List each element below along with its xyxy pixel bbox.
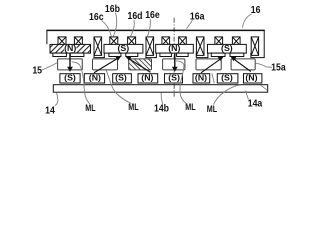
flux line ML b6 to bar4 [201,56,224,73]
spacer under bar3 left [160,53,172,56]
yoke tooth cap U1 [94,53,104,58]
flux line ML b2 to bar2 [94,56,121,73]
svg-text:14b: 14b [154,103,169,114]
center line (dash-dot axis) [173,18,175,97]
svg-text:ML: ML [85,103,95,113]
svg-text:(N): (N) [141,73,153,83]
pole piece box m4 [163,59,185,70]
magnet bar3 (N) [156,44,194,53]
svg-text:ML: ML [207,104,217,114]
spacer under bar1 left [53,53,67,56]
svg-text:(S): (S) [117,43,129,53]
lower magnet b4 (N) [138,74,158,83]
spacer under bar3 right [177,53,189,56]
spacer under bar4 right [230,53,244,56]
lower magnet b3 (S) [113,74,132,83]
leader 16a [187,20,193,29]
coil short box 3 [110,37,118,46]
leader 16c [102,20,112,36]
svg-text:16e: 16e [145,10,160,21]
svg-text:16d: 16d [127,10,142,21]
svg-text:ML: ML [128,102,138,112]
leader ML4 lower [214,85,241,105]
svg-text:14: 14 [45,105,55,116]
leader 16d [131,20,135,37]
yoke right wall [263,30,265,58]
bar1 pole text (N) [64,43,77,53]
leader 15a [256,63,273,67]
svg-text:16a: 16a [190,11,205,22]
leader ML2 [106,69,132,104]
pole piece box m2 [93,59,118,70]
magnet bar1 (N) hatched [50,44,91,53]
svg-text:(S): (S) [221,43,233,53]
svg-text:ML: ML [185,102,195,112]
leader 16b [113,13,117,37]
spacer under bar2 left [109,53,121,56]
yoke 16 top plate [46,29,264,31]
coil tall box t3 [196,37,204,56]
pole piece box m3 hatched [129,59,152,70]
center line over base plate [173,85,175,92]
leader ML3 [176,61,187,104]
leader 14b [161,93,163,105]
spacer under bar4 left [211,53,225,56]
flux arrow down under bar1 [67,54,73,72]
pole piece box m5 [196,59,221,70]
flux arrow down under bar3 [172,54,178,72]
flux line ML b4 to bar2 [126,56,151,72]
bar3 pole text (N) [168,43,181,53]
svg-text:(N): (N) [168,43,180,53]
coil short box 5 [162,37,170,46]
svg-text:16: 16 [251,5,261,16]
yoke left wall [46,30,48,44]
svg-text:14a: 14a [248,98,263,109]
pole piece 15 box m1 [58,59,83,70]
yoke tooth cap U4 [251,53,265,58]
coil 16c short box 1 [58,37,66,46]
leader 16e [147,19,150,37]
svg-text:(S): (S) [115,73,127,83]
coil short box 7 [215,37,223,46]
svg-text:15a: 15a [271,62,286,73]
coil tall box t4 [251,37,258,56]
svg-text:(N): (N) [245,73,257,83]
svg-text:16b: 16b [105,4,120,15]
lower magnet b2 (N) [84,74,104,83]
spacer under bar2 right [126,53,138,56]
svg-text:(S): (S) [168,73,180,83]
svg-text:(S): (S) [64,73,76,83]
svg-text:16c: 16c [89,11,104,22]
magnet bar4 (S) [208,44,247,53]
magnet bar2 (S) [104,44,143,53]
coil short box 4 [128,37,136,46]
coil short box 2 [74,37,82,46]
leader 14a [246,91,249,100]
pole piece box m6 (15a) [231,59,255,70]
svg-text:15: 15 [32,65,42,76]
lower magnet b6 (N) [193,74,210,83]
svg-text:(N): (N) [64,43,76,53]
leader short at bar right end [261,85,268,90]
svg-text:(N): (N) [89,73,101,83]
coil tall box t1 [94,37,102,56]
svg-text:(S): (S) [221,73,233,83]
leader 14 [55,93,58,106]
svg-text:(N): (N) [195,73,207,83]
base plate 14 [53,85,267,93]
lower magnet b8 (N) [244,74,262,83]
leader ML1 [72,62,90,104]
yoke tooth cap U2 [146,53,157,58]
spacer under bar1 right [70,53,84,56]
coil short box 6 [179,37,187,46]
leader ML4 upper [212,73,215,83]
leader 16 [243,14,252,28]
leader 15 [42,63,58,71]
flux line ML b8 to bar4 [231,56,251,72]
lower magnet b5 (S) [165,74,183,83]
coil tall box t2 [146,37,154,56]
lower magnet b7 (S) [217,74,238,83]
lower magnet b1 (S) [60,74,80,83]
coil short box 8 [232,37,240,46]
yoke tooth cap U3 [196,53,208,58]
